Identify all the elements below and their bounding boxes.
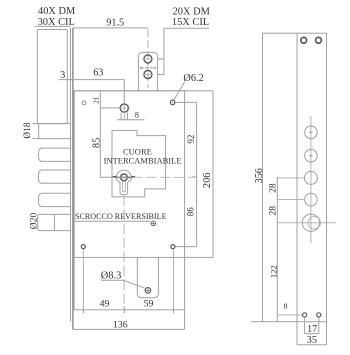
euro cylinder profile	[113, 170, 136, 194]
svg-text:Ø20: Ø20	[28, 212, 39, 229]
leader from 15X CIL label to bracket screws	[158, 28, 164, 74]
svg-text:356: 356	[254, 168, 265, 183]
deadbolt with Ø18	[32, 124, 71, 139]
strike plate top hole left	[301, 37, 307, 43]
strike plate bottom edge extension	[251, 321, 263, 323]
interchangeable core box	[112, 130, 166, 197]
label 40X DM / 30X CIL	[34, 6, 75, 28]
svg-text:20X DM: 20X DM	[173, 6, 210, 17]
svg-text:136: 136	[113, 319, 128, 330]
svg-text:91.5: 91.5	[106, 17, 124, 28]
svg-text:21: 21	[93, 96, 101, 104]
strike plate dimension stack 28/28/122/8	[268, 177, 288, 322]
strike hole 3	[277, 171, 317, 184]
svg-text:INTERCAMBIABILE: INTERCAMBIABILE	[104, 156, 182, 166]
svg-text:17: 17	[307, 324, 317, 335]
strike plate bottom hole left	[303, 313, 307, 317]
text CUORE INTERCAMBIABILE	[104, 147, 182, 166]
svg-text:8: 8	[135, 111, 139, 120]
strike hole 2	[305, 149, 318, 162]
faceplate	[71, 28, 73, 330]
svg-text:Ø18: Ø18	[23, 122, 33, 138]
body screw right	[171, 245, 197, 249]
extension lines down from screws	[83, 249, 173, 313]
strike latch hole	[277, 214, 336, 231]
deadbolt 3	[39, 170, 71, 183]
dimension line 92 / 86	[175, 102, 196, 246]
hole Ø8.3 with leader	[101, 270, 151, 293]
bracket fold line with arrows	[139, 67, 157, 69]
bracket screw 1	[143, 55, 154, 63]
svg-text:86: 86	[186, 207, 196, 217]
strike plate top hole right	[316, 37, 322, 43]
small hole top-left of body	[82, 101, 86, 105]
strike plate outline	[263, 33, 327, 322]
dimension 35	[297, 322, 327, 346]
strike plate bend line	[296, 33, 298, 322]
dimension line 21 / 85	[92, 91, 120, 178]
screw symbol after scrocco	[150, 221, 156, 227]
label 20X DM / 15X CIL	[164, 6, 210, 28]
top fixing bracket	[138, 29, 157, 91]
bracket screw 2	[143, 71, 154, 79]
svg-text:122: 122	[268, 265, 278, 278]
text SCROCCO REVERSIBILE	[74, 212, 166, 221]
dimension 91.5	[73, 17, 148, 28]
internal slot at bottom	[137, 257, 158, 297]
vertical centerline of cylinder	[123, 80, 125, 120]
svg-text:49: 49	[100, 299, 110, 310]
body screw left	[81, 245, 85, 249]
strike plate bottom hole right	[317, 313, 321, 317]
lock body main	[74, 91, 185, 310]
svg-text:206: 206	[202, 173, 213, 189]
horizontal centerline through cylinder	[100, 176, 196, 178]
strike plate vertical centerline	[310, 116, 312, 244]
svg-text:40X DM: 40X DM	[38, 6, 75, 17]
dimension 8 (screw)	[117, 111, 145, 120]
svg-text:85: 85	[92, 138, 103, 148]
lock body case	[74, 91, 213, 258]
svg-text:Ø8.3: Ø8.3	[101, 270, 122, 281]
left tall box (cylinder zone)	[37, 30, 67, 124]
svg-text:35: 35	[307, 335, 317, 346]
deadbolt 2	[39, 148, 71, 161]
cylinder fixing screw, top	[118, 104, 130, 120]
svg-text:8: 8	[284, 302, 288, 311]
svg-text:28: 28	[268, 206, 279, 216]
svg-text:28: 28	[268, 183, 279, 193]
dimensions 49 / 59 on body bottom	[83, 299, 173, 314]
latch bolt	[38, 214, 71, 230]
svg-text:3: 3	[60, 70, 65, 81]
strike hole 4	[277, 193, 317, 206]
svg-text:SCROCCO REVERSIBILE: SCROCCO REVERSIBILE	[75, 212, 167, 221]
svg-text:63: 63	[93, 68, 103, 79]
strike hole 1	[305, 126, 318, 139]
svg-text:15X CIL: 15X CIL	[172, 17, 209, 28]
extension to bottom holes	[277, 314, 302, 316]
dimension 136	[73, 310, 185, 331]
svg-text:59: 59	[144, 299, 154, 310]
svg-text:Ø6.2: Ø6.2	[183, 73, 203, 84]
deadbolt 4	[39, 193, 71, 206]
hole Ø6.2 with leader	[170, 73, 203, 105]
dimension line 3 / 63	[59, 68, 125, 104]
svg-text:92: 92	[186, 135, 196, 144]
dimension 17	[305, 318, 319, 335]
